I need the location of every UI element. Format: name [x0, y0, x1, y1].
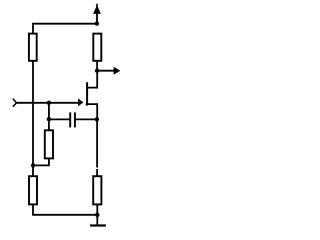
wire node A to R3 — [32, 165, 34, 176]
capacitor C1 — [70, 112, 75, 127]
resistor R4 — [93, 34, 101, 61]
node gate junction — [47, 101, 51, 105]
wire capacitor right lead — [76, 118, 97, 120]
wire drain lead — [87, 72, 97, 88]
output terminal arrow — [97, 67, 120, 75]
node output junction — [95, 69, 99, 73]
VDD supply arrow — [93, 4, 101, 24]
wire bottom rail — [33, 204, 97, 214]
wire R4 bottom lead — [96, 61, 98, 71]
node top junction — [95, 21, 99, 25]
wire gate node down to cap node — [48, 103, 50, 131]
resistor R1 — [29, 34, 37, 61]
resistor R5 — [93, 176, 101, 204]
resistor R2 — [45, 130, 53, 158]
wire R5 bottom lead — [96, 204, 98, 214]
wire input / gate — [17, 102, 80, 104]
ground — [90, 215, 106, 226]
wire top rail — [33, 24, 97, 34]
node source junction — [95, 117, 99, 121]
resistor R3 — [29, 176, 37, 204]
wire capacitor left lead — [49, 118, 70, 120]
wire source lead — [86, 104, 97, 119]
node ground junction — [95, 213, 99, 217]
transistor Q1 (JFET) — [78, 82, 87, 106]
wire source node down to R5 (with small break) — [96, 119, 98, 176]
node A junction — [31, 163, 35, 167]
node capacitor left junction — [47, 117, 51, 121]
input terminal — [13, 99, 17, 107]
wire left column (R1 bottom to node A, crosses input wire) — [32, 61, 34, 166]
wire R2 bottom to node A — [33, 158, 49, 165]
